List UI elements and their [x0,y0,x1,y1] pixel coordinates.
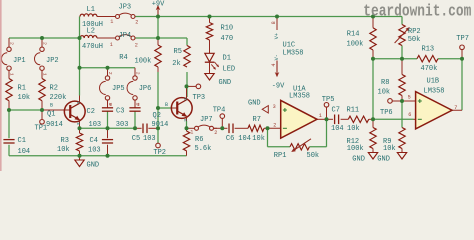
resistor R11 [347,106,369,133]
pin2 label JP3 [135,19,138,25]
capacitor C1 [3,137,30,156]
LED D1 [205,53,235,73]
inductor L2 [80,28,115,52]
resistor R2 [39,70,67,110]
svg-text:TP6: TP6 [380,109,393,117]
svg-text:Q1: Q1 [47,110,55,118]
svg-text:C4: C4 [90,137,98,145]
pin6 label U1B [408,112,411,118]
svg-text:2: 2 [135,19,138,25]
wire C6 to R7 segment [235,127,248,129]
svg-text:D1: D1 [223,54,231,62]
transistor Q2 [152,86,193,129]
svg-text:JP6: JP6 [139,85,152,93]
pin2 label U1A [273,122,276,128]
svg-text:B: B [165,102,168,108]
svg-text:103: 103 [143,135,156,143]
test point TP4 [213,107,226,129]
resistor R6 [183,128,211,156]
pin3 label U1A [273,104,276,110]
svg-text:C3: C3 [116,108,124,116]
wire R8 top lead [401,59,403,75]
svg-text:C1: C1 [18,137,26,145]
wire row2 to R5 corner [186,38,188,45]
wire RP2 top corner [401,17,403,25]
svg-text:104: 104 [238,135,251,143]
wire RP2 bottom lead [401,46,403,59]
svg-text:8: 8 [271,21,277,24]
svg-text:2: 2 [42,42,48,45]
svg-text:V-: V- [274,54,280,60]
svg-text:R1: R1 [18,85,26,93]
wire vertical L1-L2-collector column [79,17,81,96]
capacitor C6 [226,124,251,143]
op-amp U1A [281,85,317,138]
svg-text:2: 2 [135,72,141,75]
wire R4 bottom lead [157,72,159,108]
svg-text:JP1: JP1 [13,57,26,65]
potentiometer RP1 [274,139,319,160]
wire R4 column +9V link [157,17,159,39]
jumper JP5 [100,68,125,106]
op-amp U1B [416,78,452,129]
wire C1 column [8,110,10,156]
wire JP5/JP6 feed row [80,67,136,69]
resistor R7 [248,116,265,143]
svg-text:JP7: JP7 [200,116,213,124]
resistor R4 [119,38,161,72]
test point TP1 [35,110,48,132]
svg-text:103: 103 [89,121,102,129]
svg-text:R4: R4 [119,54,127,62]
svg-text:R11: R11 [347,106,360,114]
svg-text:6: 6 [408,112,411,118]
svg-text:C6: C6 [226,135,234,143]
svg-text:E: E [182,119,188,122]
test point TP3 [187,84,206,102]
wire R7 to pin2 segment [264,127,281,129]
svg-text:GND: GND [352,155,365,163]
wire U1A output row [317,118,416,120]
svg-text:470k: 470k [421,65,438,73]
svg-text:5: 5 [408,94,411,100]
svg-text:V+: V+ [274,33,280,39]
wire U1B output column [452,59,462,111]
svg-text:1: 1 [319,113,322,119]
svg-text:1: 1 [190,130,193,136]
capacitor C7 [331,106,344,133]
svg-text:2: 2 [135,42,138,48]
svg-text:U1C: U1C [283,41,296,49]
capacitor C3 [116,100,141,129]
wire Q2 base stub [158,107,177,109]
wire JP7 to C6 segment [214,127,228,129]
svg-text:2: 2 [273,122,276,128]
svg-text:TP5: TP5 [322,96,335,104]
svg-text:Q2: Q2 [153,112,161,120]
pin1 label L1/JP3 [110,19,113,25]
svg-text:JP5: JP5 [112,85,125,93]
jumper JP6 [127,68,151,106]
svg-text:104: 104 [331,125,344,133]
svg-text:R14: R14 [347,31,360,39]
svg-text:220k: 220k [50,94,67,102]
pin5 label U1B [408,94,411,100]
svg-text:1: 1 [110,19,113,25]
svg-text:103: 103 [88,146,101,154]
wire RP1 feedback loop [268,119,327,147]
wire R5 bottom / TP3 column [186,72,188,97]
ground at D1 [205,74,231,88]
svg-text:RP1: RP1 [274,152,287,160]
svg-text:LM358: LM358 [424,88,445,96]
svg-text:TP2: TP2 [153,149,166,157]
jumper JP7 [187,116,218,136]
svg-text:LM358: LM358 [283,49,304,57]
svg-text:GND: GND [377,155,390,163]
svg-text:GND: GND [219,79,232,87]
wire C2 bottom lead [107,111,109,128]
svg-text:GND: GND [248,100,261,108]
svg-text:L2: L2 [87,28,95,36]
svg-text:4: 4 [271,63,277,66]
svg-text:10k: 10k [378,89,391,97]
resistor R14 [347,17,377,59]
svg-text:B: B [50,103,53,109]
svg-text:7: 7 [454,105,457,111]
wire L2/JP4 row [9,37,187,39]
svg-text:9014: 9014 [46,121,63,129]
svg-text:470: 470 [221,35,234,43]
svg-text:104: 104 [18,148,31,156]
test point TP2 [153,143,166,157]
wire C3 bottom lead [134,111,136,128]
test point TP5 [322,96,335,119]
svg-text:5.6k: 5.6k [195,145,212,153]
wire U1B pin5 lead [392,100,416,102]
svg-text:100k: 100k [135,58,152,66]
svg-text:303: 303 [116,121,129,129]
svg-text:C: C [75,102,81,105]
power -9V (U1C pin4) [272,61,285,91]
inductor L1 [80,6,115,29]
svg-text:JP3: JP3 [119,4,132,12]
resistor R8 [378,75,406,102]
svg-text:50k: 50k [307,152,320,160]
power GND flag at U1A pin3 [248,100,268,113]
svg-text:C: C [182,98,188,101]
transistor Q1 [46,96,85,129]
resistor R1 [6,70,30,110]
svg-text:R5: R5 [174,48,182,56]
wire +9V rail (top) [135,16,402,18]
svg-text:10k: 10k [57,146,70,154]
svg-text:C7: C7 [332,106,340,114]
pin7 label U1B [454,105,457,111]
jumper JP2 [34,38,58,76]
op-amp U1C power pins [271,17,303,71]
jumper JP4 [116,32,136,40]
svg-text:R13: R13 [422,45,435,53]
resistor R10 [206,17,233,54]
svg-text:R10: R10 [221,25,234,33]
resistor R3 [57,128,83,156]
svg-text:LED: LED [223,65,236,73]
wire node-X vertical [372,59,374,120]
svg-text:teardownit.com: teardownit.com [363,1,471,21]
svg-text:R6: R6 [195,136,203,144]
svg-text:100k: 100k [347,40,364,48]
svg-text:1: 1 [110,42,113,48]
jumper JP1 [1,38,25,76]
capacitor C2 [87,100,114,129]
svg-text:U1B: U1B [427,78,440,86]
wire divider row y58.7 [373,58,462,60]
svg-text:R3: R3 [61,137,69,145]
svg-text:L1: L1 [87,6,95,14]
svg-text:+9V: +9V [152,0,165,8]
svg-text:LM358: LM358 [289,92,310,100]
pin2 label JP4 [135,42,138,48]
capacitor C5 [132,124,156,144]
svg-text:2: 2 [9,42,15,45]
wire R1/R2 base row [9,109,66,111]
svg-text:10k: 10k [252,135,265,143]
svg-text:1: 1 [109,102,112,108]
resistor R13 [417,45,438,73]
test point TP7 [456,35,469,59]
svg-text:2: 2 [214,130,217,136]
wire ground rail (bottom) [9,155,187,157]
svg-text:10k: 10k [383,145,396,153]
svg-text:R2: R2 [50,85,58,93]
resistor R9 [383,128,405,153]
capacitor C4 [88,128,113,156]
svg-text:50k: 50k [408,36,421,44]
watermark teardownit.com [363,1,471,21]
wire Q2 base column [157,108,159,143]
svg-text:1: 1 [137,102,140,108]
svg-text:E: E [75,123,81,126]
svg-text:10k: 10k [18,94,31,102]
power +9V [152,0,165,16]
potentiometer RP2 [395,25,421,46]
svg-text:C5: C5 [132,135,140,143]
jumper JP3 [116,4,136,19]
resistor R5 [172,45,190,68]
svg-text:C2: C2 [87,108,95,116]
svg-text:TP7: TP7 [456,35,469,43]
pin1 label U1A [319,113,322,119]
wire Q2 emitter junction row [186,121,188,128]
svg-text:R7: R7 [253,116,261,124]
svg-text:JP2: JP2 [46,57,59,65]
test point TP6 [380,99,393,117]
svg-text:3: 3 [273,104,276,110]
svg-text:2k: 2k [172,60,180,68]
svg-text:2: 2 [107,72,113,75]
wire R9 column from pin5 [401,101,403,128]
svg-text:R8: R8 [381,79,389,87]
svg-text:TP4: TP4 [213,107,226,115]
svg-text:470uH: 470uH [82,43,103,51]
svg-text:100k: 100k [347,145,364,153]
ground at R9 [377,153,406,164]
svg-text:JP4: JP4 [119,32,132,40]
screen edge artifact [0,0,2,171]
wire emitter/coupling row [80,127,159,129]
svg-text:GND: GND [87,162,100,170]
pin1 label L2/JP4 [110,42,113,48]
svg-text:-9V: -9V [272,83,285,91]
ground at R12 [352,153,377,164]
resistor R12 [347,119,377,153]
svg-text:10k: 10k [347,125,360,133]
svg-text:TP3: TP3 [193,94,206,102]
ground at R3 [75,156,99,170]
